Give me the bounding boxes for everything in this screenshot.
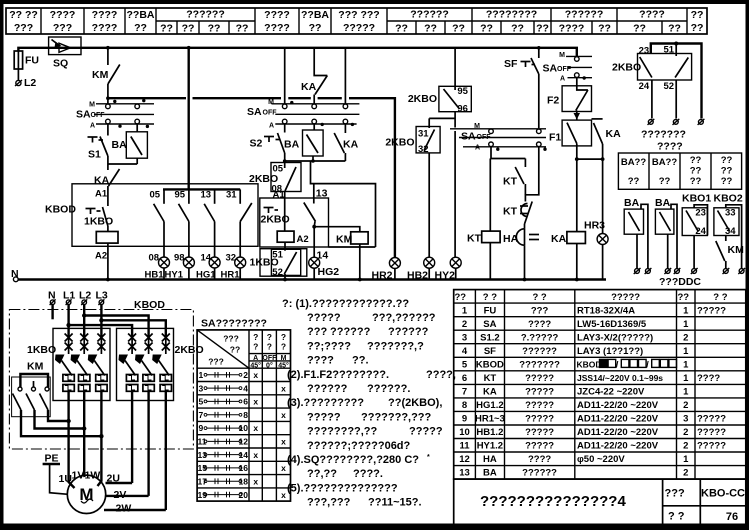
svg-text:?????: ?????: [525, 400, 554, 411]
svg-text:??: ??: [668, 23, 681, 35]
svg-text:M: M: [89, 102, 95, 109]
SA table row 9-10: [199, 423, 259, 433]
parts table row 11: [459, 441, 726, 452]
svg-text:2: 2: [683, 400, 688, 411]
svg-text:AD11-22/20 ~220V: AD11-22/20 ~220V: [577, 400, 659, 411]
svg-text:1: 1: [462, 305, 468, 316]
transducer BA remote 2: [655, 197, 680, 274]
svg-text:13: 13: [201, 190, 212, 201]
svg-text:KT: KT: [484, 373, 497, 384]
svg-text:HY1.2: HY1.2: [477, 441, 503, 452]
coil KT: [467, 159, 500, 280]
svg-text:????: ????: [92, 9, 118, 21]
svg-text:OFF: OFF: [557, 66, 572, 73]
svg-text:34: 34: [725, 226, 736, 237]
svg-text:????: ????: [50, 9, 76, 21]
contact 1KBO 51-52: [250, 249, 307, 280]
pushbutton S2: [250, 124, 285, 161]
svg-text:12: 12: [239, 437, 249, 447]
svg-text:1: 1: [683, 359, 689, 370]
svg-text:2: 2: [683, 427, 688, 438]
svg-text:10: 10: [239, 423, 249, 433]
svg-text:??????: ??????: [186, 9, 224, 21]
svg-text:??: ??: [721, 176, 733, 187]
svg-text:M: M: [281, 355, 287, 362]
breaker 2KBO pole 2: [135, 334, 154, 496]
svg-text:????: ????: [264, 9, 290, 21]
svg-text:A2: A2: [297, 234, 309, 245]
svg-text:??: ??: [678, 292, 690, 303]
selector switch SA (left): [76, 99, 154, 130]
contact KBO1 23-24: [682, 193, 711, 275]
svg-text:?????: ?????: [525, 414, 554, 425]
svg-text:SA: SA: [247, 106, 262, 118]
svg-text:52: 52: [664, 81, 675, 92]
svg-text:13: 13: [459, 468, 470, 479]
svg-text:HA: HA: [483, 454, 497, 465]
breaker 2KBO pole 1: [119, 334, 138, 484]
svg-text:x: x: [281, 383, 286, 393]
svg-text:(5).??????????????: (5).??????????????: [287, 482, 398, 494]
breaker 1KBO: [27, 328, 110, 400]
svg-text:KA: KA: [301, 81, 317, 93]
svg-text:BA??: BA??: [621, 157, 647, 168]
protection relay F2: [547, 86, 592, 120]
svg-text:A2: A2: [95, 251, 107, 262]
svg-text:????????,??????: ????????,??????: [307, 312, 436, 324]
pushbutton SF: [504, 46, 541, 128]
svg-text:6: 6: [243, 397, 248, 407]
svg-text:S2: S2: [250, 138, 263, 150]
svg-text:A: A: [475, 145, 480, 152]
svg-text:2: 2: [243, 370, 248, 380]
svg-text:1: 1: [683, 454, 689, 465]
svg-text:SA: SA: [483, 319, 496, 330]
svg-text:SQ: SQ: [53, 58, 68, 70]
svg-text:??????: ??????: [565, 9, 603, 21]
svg-text:??: ??: [309, 22, 322, 34]
svg-text:18: 18: [239, 476, 249, 486]
contactor KM power contacts: [12, 361, 51, 417]
svg-text:?: ?: [253, 342, 258, 352]
svg-text:19: 19: [198, 490, 208, 500]
svg-text:SA: SA: [543, 63, 558, 75]
svg-text:AD11-22/20 ~220V: AD11-22/20 ~220V: [577, 427, 659, 438]
svg-text:F2: F2: [547, 95, 559, 107]
parts table row 6: [462, 373, 721, 384]
svg-text:????: ????: [559, 23, 585, 35]
svg-text:?????: ?????: [697, 414, 726, 425]
svg-text:S1: S1: [88, 149, 101, 161]
svg-text:KBOD: KBOD: [476, 359, 504, 370]
svg-text:?????: ?????: [697, 305, 726, 316]
breaker 2KBO: [117, 328, 204, 400]
svg-text:2KBO: 2KBO: [249, 173, 278, 185]
svg-text:x: x: [253, 476, 258, 486]
svg-text:?.?????: ?.?????: [521, 332, 559, 343]
svg-text:OFF: OFF: [262, 355, 277, 362]
lamp HR2: [372, 258, 401, 282]
node L2 terminal: [15, 77, 36, 89]
svg-text:N: N: [11, 268, 19, 280]
svg-text:????: ????: [639, 9, 665, 21]
svg-text:???: ???: [665, 488, 685, 500]
svg-text:1: 1: [683, 346, 689, 357]
wire junction F1-KA outputs: [575, 157, 605, 161]
svg-text:08: 08: [149, 253, 160, 264]
parts table row 12: [459, 454, 689, 465]
wire motor inputs 2U 2V 2W: [104, 483, 166, 510]
svg-text:HG1.2: HG1.2: [476, 400, 503, 411]
svg-text:F1: F1: [549, 132, 561, 144]
svg-text:x: x: [253, 423, 258, 433]
svg-text:BA??: BA??: [652, 157, 678, 168]
svg-text:?????: ?????: [611, 292, 640, 303]
wire BA branch to right: [311, 161, 376, 247]
coil KM: [314, 227, 368, 280]
svg-text:2KBO: 2KBO: [408, 93, 437, 105]
limit switch SQ: [49, 37, 81, 70]
svg-text:HR1~3: HR1~3: [475, 414, 505, 425]
svg-text:??: ??: [182, 23, 195, 35]
svg-text:??? ???: ??? ???: [338, 9, 379, 21]
contact 13 with lamp HG1: [196, 189, 220, 280]
svg-text:S1.2: S1.2: [480, 332, 500, 343]
SA table row 1-2: [199, 370, 259, 380]
svg-text:?????: ?????: [525, 387, 554, 398]
wire jumper bus to HR2: [106, 96, 395, 257]
svg-text:??: ??: [690, 155, 702, 166]
pushbutton S1: [88, 124, 108, 164]
contact 31 with lamp HR1: [221, 189, 252, 280]
parts table row 2: [462, 319, 689, 330]
svg-text:???????: ???????: [641, 129, 686, 141]
svg-text:HR3: HR3: [584, 220, 605, 232]
svg-text:14: 14: [239, 450, 249, 460]
svg-text:1KBO: 1KBO: [250, 257, 279, 269]
selector switch SA (lower right): [450, 123, 547, 152]
SA table row 3-4: [199, 383, 287, 393]
SA table row 15-16: [198, 463, 287, 473]
svg-text:24: 24: [695, 226, 706, 237]
svg-text:KA: KA: [483, 387, 497, 398]
svg-text:(4).SQ????????,?280 C?: (4).SQ????????,?280 C?: [287, 454, 419, 466]
header terminal table: [6, 8, 707, 34]
wire KT feed bracket: [491, 147, 525, 159]
parts table row 10: [459, 427, 726, 438]
ground PE: [43, 453, 68, 495]
svg-text:????: ????: [92, 22, 118, 34]
svg-text:15: 15: [198, 463, 208, 473]
svg-text:SA: SA: [76, 109, 91, 121]
svg-text:??????;?????06d?: ??????;?????06d?: [307, 440, 411, 452]
svg-text:SF: SF: [504, 58, 518, 70]
svg-text:????????: ????????: [486, 9, 537, 21]
svg-text:JZC4-22 ~220V: JZC4-22 ~220V: [577, 387, 645, 398]
wire top supply rail: [18, 48, 576, 57]
wire KBOD lamp bus feeder: [163, 46, 240, 190]
contact 05 with lamp HB1: [145, 189, 170, 280]
svg-text:??????: ??????: [522, 346, 557, 357]
SA table row 7-8: [199, 410, 287, 420]
parts table row 1: [462, 305, 726, 316]
svg-text:3: 3: [683, 414, 688, 425]
svg-text:??: ??: [721, 155, 733, 166]
title block: [454, 479, 746, 525]
svg-text:0°: 0°: [266, 362, 273, 370]
svg-text:??: ??: [691, 9, 704, 21]
svg-text:11: 11: [459, 441, 470, 452]
horn HA: [503, 229, 539, 282]
svg-text:x: x: [253, 450, 258, 460]
svg-text:51: 51: [664, 45, 675, 56]
breaker 1KBO pole 2: [71, 334, 90, 476]
svg-text:?????: ?????: [525, 427, 554, 438]
relay contact KA (center lower): [334, 124, 358, 161]
node DDC terminals label: [659, 276, 701, 288]
header table text row 1: [9, 9, 703, 22]
svg-text:KT: KT: [503, 176, 518, 188]
wire motor inputs 1U 1V 1W: [69, 473, 102, 488]
svg-text:??: ??: [424, 23, 437, 35]
svg-text:?????: ?????: [697, 441, 726, 452]
transducer BA remote 1: [624, 197, 651, 274]
svg-text:??: ??: [455, 292, 467, 303]
svg-text:1: 1: [683, 305, 689, 316]
svg-text:??: ??: [480, 23, 493, 35]
wire SF branch join: [525, 147, 538, 202]
svg-text:KBO-CC: KBO-CC: [701, 488, 745, 500]
svg-text:?: ?: [253, 332, 258, 342]
breaker 2KBO pole 3: [152, 334, 171, 511]
svg-text:1: 1: [199, 370, 204, 380]
svg-text:1KBO: 1KBO: [84, 216, 113, 228]
parts table row 13: [459, 468, 688, 479]
svg-text:x: x: [253, 397, 258, 407]
SA table row 5-6: [199, 397, 259, 407]
svg-text:1: 1: [683, 373, 689, 384]
power section enclosure KBOD: [9, 299, 193, 449]
SA table row 17-18: [198, 476, 259, 486]
SA table row 13-14: [198, 450, 259, 460]
svg-text:OFF: OFF: [263, 110, 278, 117]
svg-text:PE: PE: [45, 453, 59, 465]
svg-text:??: ??: [690, 176, 702, 187]
terminals below 2KBO block: [641, 119, 704, 153]
svg-text:2KBO: 2KBO: [385, 137, 414, 149]
parts table row 4: [462, 346, 689, 357]
svg-text:?: ?: [267, 342, 272, 352]
svg-text:BA: BA: [483, 468, 497, 479]
svg-text:FU: FU: [484, 305, 497, 316]
svg-text:RT18-32X/4A: RT18-32X/4A: [577, 305, 635, 316]
svg-text:??: ??: [633, 23, 646, 35]
SA table row 11-12: [198, 437, 287, 447]
svg-text:LW5-16D1369/5: LW5-16D1369/5: [577, 319, 647, 330]
svg-text:?????: ?????: [525, 373, 554, 384]
svg-text:2: 2: [683, 332, 688, 343]
svg-text:/: /: [646, 359, 649, 370]
svg-text:KM: KM: [27, 361, 44, 373]
svg-text:??: ??: [721, 166, 733, 177]
svg-text:10: 10: [459, 427, 470, 438]
svg-text:?? ??: ?? ??: [9, 9, 38, 21]
parts list table: [454, 290, 746, 480]
svg-text:5: 5: [199, 397, 204, 407]
transducer BA (center): [284, 124, 323, 161]
svg-text:11: 11: [198, 437, 207, 447]
motor terminal labels: [59, 470, 132, 515]
svg-text:? ?: ? ?: [483, 292, 497, 303]
svg-text:13: 13: [316, 188, 328, 200]
wire L2 feeder: [82, 305, 149, 337]
svg-text:8: 8: [462, 400, 467, 411]
svg-text:M: M: [559, 52, 565, 59]
svg-text:HB1.2: HB1.2: [476, 427, 503, 438]
lamp HG2: [309, 227, 340, 280]
SA switch position table: [197, 318, 290, 502]
parts table row 9: [462, 414, 726, 425]
2KBO remote contact block: [612, 42, 702, 119]
svg-text:2KBO: 2KBO: [175, 344, 204, 356]
svg-text:3: 3: [462, 332, 467, 343]
svg-text:x: x: [253, 370, 258, 380]
svg-text:5: 5: [462, 359, 468, 370]
svg-text:SA????????: SA????????: [201, 318, 267, 330]
svg-text:KBOD: KBOD: [45, 204, 76, 216]
coil 1KBO (KBOD trip unit): [84, 207, 118, 280]
lamp HY2: [435, 131, 462, 282]
svg-text:x: x: [281, 463, 286, 473]
wire branch drops center: [285, 48, 346, 104]
KBOD control unit box: [45, 184, 258, 247]
svg-text:??: ??: [160, 23, 173, 35]
motor M: [67, 475, 105, 513]
svg-text:?: (1).????????????.??: ?: (1).????????????.??: [282, 298, 409, 310]
svg-text:2W: 2W: [116, 503, 132, 515]
svg-text:x: x: [281, 490, 286, 500]
svg-text:1W: 1W: [85, 470, 101, 482]
svg-text:FU: FU: [25, 55, 39, 67]
svg-text:6: 6: [462, 373, 467, 384]
svg-text:*: *: [427, 454, 430, 461]
svg-text:2: 2: [683, 468, 688, 479]
svg-text:????????,???????: ????????,???????: [307, 426, 443, 438]
contact 2KBO 31-32 with lamp HB2: [385, 118, 440, 281]
svg-text:A: A: [560, 76, 565, 83]
svg-text:8: 8: [243, 410, 248, 420]
svg-text:7: 7: [199, 410, 204, 420]
coil KA: [551, 159, 585, 281]
svg-text:??????: ??????: [522, 468, 557, 479]
svg-text:AD11-22/20 ~220V: AD11-22/20 ~220V: [577, 414, 659, 425]
svg-text:4: 4: [243, 383, 248, 393]
breaker 1KBO pole 3: [88, 334, 107, 474]
relay contact KA (center top): [301, 48, 327, 104]
svg-text:KT: KT: [503, 206, 518, 218]
svg-text:? ?: ? ?: [532, 292, 546, 303]
svg-text:76: 76: [726, 511, 738, 523]
SA table row 19-20: [198, 490, 287, 500]
svg-text:???: ???: [531, 305, 549, 316]
wire KM pole outputs to motor lines: [21, 410, 104, 438]
svg-text:KA: KA: [606, 128, 622, 140]
contactor contact KM: [92, 46, 120, 104]
svg-text:17: 17: [198, 476, 208, 486]
svg-text:AD11-22/20 ~220V: AD11-22/20 ~220V: [577, 441, 659, 452]
parts table row 8: [462, 400, 689, 411]
wire L1 feeder: [66, 305, 132, 337]
svg-text:??: ??: [134, 22, 147, 34]
svg-text:OFF: OFF: [91, 112, 106, 119]
svg-text:31: 31: [418, 129, 429, 140]
selector switch SA (center): [247, 99, 359, 130]
parts table row header: [455, 292, 728, 303]
svg-text:????: ????: [528, 454, 551, 465]
svg-text:24: 24: [639, 81, 650, 92]
svg-text:SF: SF: [484, 346, 496, 357]
svg-text:?: ?: [281, 342, 286, 352]
svg-text:??: ??: [208, 23, 221, 35]
svg-text:????????????,???: ????????????,???: [307, 411, 432, 423]
breaker 1KBO pole 1: [55, 334, 74, 474]
svg-text:1V: 1V: [72, 470, 85, 482]
wire big box bottom to BA return: [329, 246, 376, 248]
svg-text:HG2: HG2: [318, 266, 340, 278]
svg-text:1: 1: [683, 387, 689, 398]
svg-text:KA: KA: [94, 175, 110, 187]
timer contact KT: [503, 159, 525, 195]
contact 2KBO 05-08: [249, 161, 301, 200]
svg-text:05: 05: [150, 190, 161, 201]
svg-text:(2).F1.F2????????.????,: (2).F1.F2????????.????,: [287, 369, 456, 381]
svg-text:???????????????: ???????????????: [307, 326, 429, 338]
svg-text:???: ???: [208, 357, 224, 367]
svg-text:??????: ??????: [410, 9, 448, 21]
svg-text:??BA: ??BA: [127, 9, 155, 21]
svg-text:???: ???: [53, 22, 72, 34]
svg-text:BA: BA: [112, 139, 128, 151]
header table text row 2: [14, 22, 704, 35]
svg-text:????: ????: [528, 319, 551, 330]
lamp HR3: [584, 159, 608, 279]
svg-text:A1: A1: [273, 189, 286, 200]
svg-text:BA: BA: [624, 197, 640, 209]
svg-text:KBO2: KBO2: [714, 193, 743, 205]
protection relay F1: [549, 120, 592, 159]
svg-text:7: 7: [462, 387, 467, 398]
svg-text:M: M: [268, 99, 274, 106]
svg-text:KA: KA: [343, 139, 359, 151]
svg-text:?????: ?????: [525, 441, 554, 452]
svg-text:???: ???: [14, 22, 33, 34]
svg-text:?????: ?????: [343, 22, 375, 34]
svg-text:??: ??: [452, 23, 465, 35]
notes text block: [282, 298, 456, 509]
svg-text:??: ??: [536, 23, 549, 35]
trip coil 2KBO box: [260, 198, 329, 251]
svg-text:KM: KM: [92, 69, 109, 81]
wire 31-32 branch tap: [429, 117, 455, 119]
svg-text:96: 96: [457, 103, 468, 114]
svg-text:JSS14/~220V 0.1~99s: JSS14/~220V 0.1~99s: [577, 373, 663, 383]
transducer BA (left): [112, 124, 148, 164]
svg-text:33: 33: [725, 208, 736, 219]
svg-text:?: ?: [267, 332, 272, 342]
svg-text:A1: A1: [95, 189, 108, 200]
svg-text:?: ?: [281, 332, 286, 342]
wire L3 feeder: [99, 305, 166, 337]
